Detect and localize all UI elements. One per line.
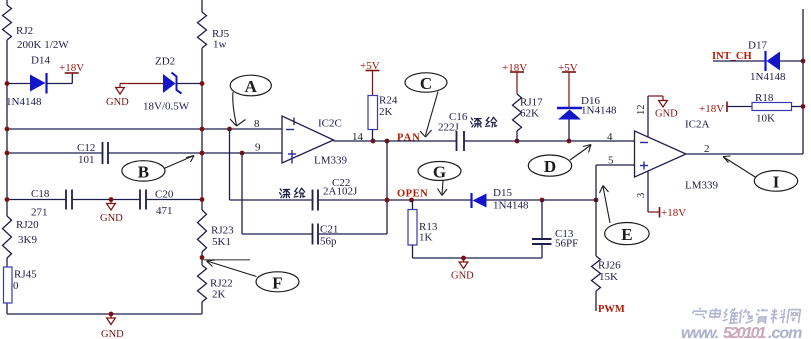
diode D16 bbox=[557, 107, 582, 109]
svg-text:R24: R24 bbox=[379, 95, 398, 107]
capacitor C22 bbox=[312, 190, 314, 211]
svg-text:18V/0.5W: 18V/0.5W bbox=[143, 101, 190, 113]
svg-text:C: C bbox=[420, 74, 432, 93]
node B ellipse bbox=[122, 161, 165, 181]
resistor RJ22 bbox=[198, 265, 207, 302]
svg-text:OPEN: OPEN bbox=[397, 189, 428, 200]
ground at R13 bbox=[463, 258, 465, 262]
zener ZD2 bbox=[163, 74, 176, 93]
svg-text:D: D bbox=[544, 157, 556, 176]
svg-text:D15: D15 bbox=[493, 187, 512, 199]
svg-text:8: 8 bbox=[254, 118, 260, 130]
svg-text:9: 9 bbox=[255, 142, 261, 154]
node E arrow bbox=[603, 187, 610, 224]
svg-text:RJ2: RJ2 bbox=[16, 25, 33, 37]
svg-text:PWM: PWM bbox=[598, 304, 625, 315]
wire left vertical rail x=7 bbox=[6, 0, 8, 5]
svg-text:471: 471 bbox=[156, 205, 173, 217]
capacitor C20 bbox=[139, 190, 141, 210]
resistor RJ26 bbox=[592, 256, 601, 291]
svg-text:IC2A: IC2A bbox=[685, 119, 710, 131]
svg-text:GND: GND bbox=[100, 213, 123, 224]
svg-text:+18V: +18V bbox=[699, 103, 724, 115]
svg-text:D17: D17 bbox=[748, 40, 767, 52]
svg-text:2K: 2K bbox=[212, 289, 226, 301]
svg-text:+5V: +5V bbox=[360, 60, 380, 72]
node G ellipse bbox=[418, 162, 461, 181]
wire bottom rail bbox=[7, 313, 202, 315]
wire pin9 feedback vertical bbox=[241, 153, 243, 234]
wire R13/C13 bottom bbox=[413, 257, 543, 259]
svg-text:5K1: 5K1 bbox=[212, 236, 231, 248]
svg-text:+18V: +18V bbox=[661, 207, 686, 219]
svg-text:2K: 2K bbox=[379, 106, 393, 118]
svg-text:10K: 10K bbox=[756, 113, 775, 125]
svg-text:1N4148: 1N4148 bbox=[581, 105, 617, 117]
node D ellipse bbox=[528, 155, 571, 176]
node D14 anode wire bbox=[7, 83, 30, 85]
wire output row pin14 bbox=[334, 140, 457, 142]
capacitor C13 bbox=[541, 200, 543, 238]
node A arrow bbox=[233, 92, 237, 125]
svg-text:101: 101 bbox=[78, 154, 95, 166]
wire pin9 row bbox=[7, 152, 102, 154]
+5V supply at R24 bbox=[366, 70, 380, 72]
+5V supply at D16 bbox=[562, 71, 576, 73]
svg-text:2: 2 bbox=[704, 143, 710, 155]
svg-text:3K9: 3K9 bbox=[18, 234, 37, 246]
resistor RJ23 bbox=[198, 210, 207, 252]
wire pin5 row bbox=[596, 164, 635, 166]
capacitor C12 bbox=[102, 142, 104, 164]
wire pin2 row bbox=[686, 153, 803, 155]
svg-text:+18V: +18V bbox=[59, 62, 84, 74]
svg-text:I: I bbox=[773, 172, 780, 191]
svg-text:C12: C12 bbox=[77, 142, 95, 154]
svg-text:RJ20: RJ20 bbox=[16, 219, 39, 231]
svg-text:+18V: +18V bbox=[502, 62, 527, 74]
node D arrow bbox=[570, 145, 591, 160]
polyester hanzi label near C22 bbox=[280, 188, 305, 197]
svg-text:12: 12 bbox=[636, 105, 647, 116]
svg-text:RJ26: RJ26 bbox=[598, 260, 621, 272]
capacitor C16 bbox=[456, 131, 458, 151]
svg-text:A: A bbox=[245, 77, 258, 96]
svg-text:G: G bbox=[433, 162, 446, 181]
wire ZD2 to rail bbox=[176, 83, 202, 85]
svg-text:.com: .com bbox=[768, 325, 802, 339]
wire gnd to ZD2 bbox=[120, 83, 163, 85]
resistor RJ2 bbox=[3, 5, 12, 40]
svg-text:520101: 520101 bbox=[723, 325, 766, 339]
pin 3 stub and +18V bbox=[647, 171, 649, 212]
resistor RJ45 bbox=[4, 267, 13, 303]
resistor R18 bbox=[752, 103, 792, 111]
svg-text:200K 1/2W: 200K 1/2W bbox=[17, 39, 69, 51]
node F leader line bbox=[204, 259, 251, 261]
svg-text:+5V: +5V bbox=[558, 62, 578, 74]
svg-text:1N4148: 1N4148 bbox=[493, 200, 529, 212]
svg-text:B: B bbox=[138, 162, 149, 181]
ground at ZD2 bbox=[119, 84, 121, 88]
node I ellipse bbox=[754, 171, 797, 192]
diode D17 bbox=[764, 51, 766, 71]
+18V supply at RJ17 bbox=[510, 71, 524, 73]
svg-text:62K: 62K bbox=[520, 108, 539, 120]
svg-text:GND: GND bbox=[655, 109, 678, 120]
resistor RJ20 bbox=[3, 216, 12, 258]
svg-text:GND: GND bbox=[101, 329, 124, 339]
svg-text:3: 3 bbox=[636, 193, 647, 198]
svg-text:222J: 222J bbox=[438, 122, 460, 134]
svg-text:IC2C: IC2C bbox=[318, 118, 342, 130]
resistor RJ17 bbox=[513, 94, 522, 131]
svg-text:1N4148: 1N4148 bbox=[6, 96, 42, 108]
svg-text:RJ23: RJ23 bbox=[211, 225, 234, 237]
node F ellipse bbox=[256, 272, 299, 292]
wire right vertical x=803 bbox=[802, 9, 804, 154]
svg-text:R18: R18 bbox=[755, 92, 774, 104]
resistor RJ5 bbox=[198, 12, 207, 48]
watermark line 1 bbox=[692, 308, 706, 319]
capacitor C21 bbox=[312, 224, 314, 245]
wire pin8 feedback vertical bbox=[229, 129, 231, 200]
svg-text:GND: GND bbox=[451, 271, 474, 282]
svg-text:PAN: PAN bbox=[397, 133, 421, 144]
node I arrow bbox=[724, 157, 757, 178]
svg-text:56p: 56p bbox=[320, 236, 337, 248]
wire feedback vertical x=387 bbox=[386, 141, 388, 234]
resistor R24 bbox=[368, 96, 378, 130]
svg-text:C20: C20 bbox=[155, 189, 174, 201]
svg-text:5: 5 bbox=[608, 155, 614, 167]
op-amp U IC2A bbox=[635, 131, 687, 177]
svg-text:C21: C21 bbox=[320, 224, 338, 236]
diode D14 bbox=[30, 75, 46, 92]
svg-text:4: 4 bbox=[607, 131, 613, 143]
svg-text:15K: 15K bbox=[599, 271, 618, 283]
svg-text:RJ45: RJ45 bbox=[14, 269, 37, 281]
capacitor C18 bbox=[65, 190, 67, 210]
wire C22/OPEN row bbox=[230, 199, 313, 201]
resistor R13 bbox=[412, 200, 414, 210]
ground bottom bbox=[109, 312, 114, 317]
wire INT_CH row bbox=[713, 60, 765, 62]
svg-text:D14: D14 bbox=[31, 55, 50, 67]
wire C18/C20 row bbox=[7, 199, 66, 201]
svg-text:1N4148: 1N4148 bbox=[750, 71, 786, 83]
svg-text:C18: C18 bbox=[31, 188, 50, 200]
+18V supply at D14 bbox=[47, 83, 73, 85]
ground mid-left bbox=[110, 200, 112, 204]
svg-text:LM339: LM339 bbox=[314, 155, 348, 167]
node A ellipse bbox=[230, 75, 271, 96]
wire pin8 row bbox=[7, 128, 282, 130]
node F arrow bbox=[207, 261, 257, 277]
pin 12 stub and ground bbox=[647, 96, 649, 137]
svg-text:56PF: 56PF bbox=[555, 238, 578, 250]
svg-text:LM339: LM339 bbox=[685, 180, 719, 192]
svg-text:www.: www. bbox=[681, 325, 719, 339]
node C ellipse bbox=[405, 73, 447, 92]
svg-text:1K: 1K bbox=[419, 232, 433, 244]
node E ellipse bbox=[605, 223, 650, 245]
wire C21 row bbox=[242, 233, 312, 235]
svg-text:GND: GND bbox=[106, 97, 129, 108]
svg-text:E: E bbox=[621, 225, 632, 244]
node B arrow bbox=[164, 156, 194, 169]
svg-text:ZD2: ZD2 bbox=[155, 56, 175, 68]
svg-text:271: 271 bbox=[31, 207, 48, 219]
node C arrow bbox=[426, 92, 439, 136]
wire pin5 vertical bbox=[595, 165, 597, 256]
svg-text:0: 0 bbox=[13, 280, 19, 292]
svg-text:2A102J: 2A102J bbox=[323, 186, 358, 198]
svg-text:1w: 1w bbox=[213, 39, 227, 51]
op-amp U IC2C bbox=[282, 116, 334, 163]
wire mid vertical rail x=202 bbox=[201, 0, 203, 12]
diode D15 bbox=[470, 193, 472, 208]
node G arrow bbox=[442, 181, 443, 194]
svg-text:F: F bbox=[272, 273, 282, 292]
polyester hanzi label near C16 bbox=[471, 117, 497, 127]
